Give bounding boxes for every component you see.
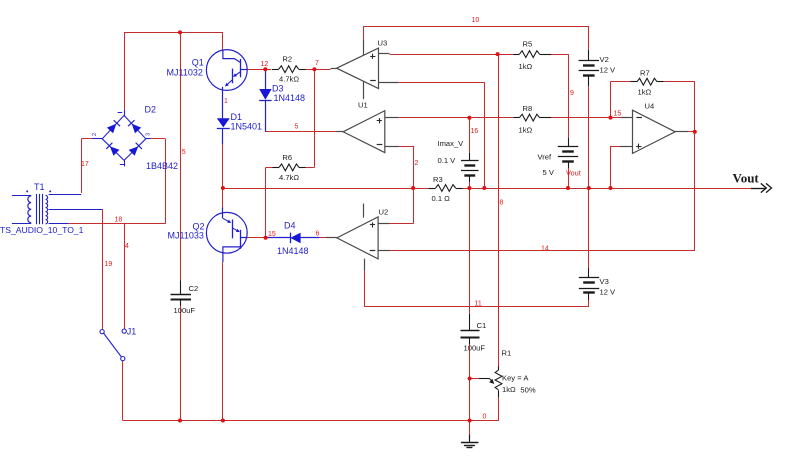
svg-text:Vout: Vout — [733, 171, 760, 186]
svg-text:50%: 50% — [520, 386, 535, 395]
svg-text:1kΩ: 1kΩ — [502, 385, 516, 394]
svg-text:J1: J1 — [127, 327, 137, 337]
svg-text:12 V: 12 V — [600, 66, 617, 75]
svg-text:5 V: 5 V — [543, 168, 555, 177]
svg-text:R3: R3 — [433, 175, 443, 184]
svg-text:18: 18 — [115, 217, 123, 224]
svg-text:100uF: 100uF — [464, 344, 486, 353]
svg-text:1N5401: 1N5401 — [231, 122, 263, 132]
svg-text:16: 16 — [471, 128, 479, 135]
svg-text:2: 2 — [415, 160, 419, 167]
svg-text:U3: U3 — [378, 39, 388, 48]
svg-text:12 V: 12 V — [600, 288, 617, 297]
svg-text:R7: R7 — [640, 69, 650, 78]
svg-text:MJ11032: MJ11032 — [167, 68, 203, 78]
svg-text:4.7kΩ: 4.7kΩ — [279, 74, 299, 83]
svg-text:D4: D4 — [284, 221, 296, 231]
svg-text:TS_AUDIO_10_TO_1: TS_AUDIO_10_TO_1 — [0, 225, 84, 235]
svg-text:4: 4 — [125, 243, 129, 250]
svg-text:Key = A: Key = A — [502, 374, 529, 383]
svg-text:D1: D1 — [231, 112, 243, 122]
svg-text:3: 3 — [146, 133, 152, 136]
svg-text:R8: R8 — [523, 104, 533, 113]
svg-text:T1: T1 — [34, 182, 45, 192]
svg-text:1: 1 — [224, 98, 228, 105]
svg-text:5: 5 — [295, 124, 299, 131]
svg-text:11: 11 — [475, 301, 482, 308]
svg-text:15: 15 — [268, 231, 276, 238]
svg-text:MJ11033: MJ11033 — [168, 231, 204, 241]
svg-text:19: 19 — [105, 261, 113, 268]
svg-text:8: 8 — [500, 200, 504, 207]
svg-text:1kΩ: 1kΩ — [638, 88, 652, 97]
svg-text:14: 14 — [541, 245, 549, 252]
svg-text:R1: R1 — [502, 349, 512, 358]
svg-text:U4: U4 — [645, 102, 655, 111]
svg-text:0: 0 — [483, 414, 487, 421]
svg-text:17: 17 — [81, 161, 89, 168]
svg-text:U2: U2 — [379, 208, 389, 217]
svg-text:5: 5 — [182, 149, 186, 156]
svg-text:7: 7 — [315, 60, 319, 67]
svg-text:1kΩ: 1kΩ — [519, 126, 533, 135]
svg-text:V2: V2 — [600, 55, 609, 64]
svg-text:V3: V3 — [600, 277, 609, 286]
svg-text:R6: R6 — [282, 153, 292, 162]
svg-text:Imax_V: Imax_V — [438, 139, 465, 148]
svg-text:U1: U1 — [358, 101, 368, 110]
svg-text:1N4148: 1N4148 — [274, 93, 306, 103]
svg-text:12: 12 — [261, 61, 269, 68]
svg-text:6: 6 — [316, 231, 320, 238]
svg-text:Q1: Q1 — [192, 57, 204, 67]
svg-text:Vout: Vout — [566, 169, 581, 178]
svg-text:D2: D2 — [145, 105, 157, 115]
svg-text:C1: C1 — [477, 321, 487, 330]
svg-text:0.1 V: 0.1 V — [438, 156, 457, 165]
svg-text:R5: R5 — [523, 40, 533, 49]
svg-text:4.7kΩ: 4.7kΩ — [279, 173, 299, 182]
svg-text:1B4B42: 1B4B42 — [146, 161, 178, 171]
svg-text:1kΩ: 1kΩ — [519, 62, 533, 71]
svg-text:100uF: 100uF — [174, 306, 196, 315]
svg-text:Vref: Vref — [538, 153, 553, 162]
svg-text:0.1 Ω: 0.1 Ω — [432, 194, 451, 203]
svg-text:1N4148: 1N4148 — [277, 246, 309, 256]
svg-text:2: 2 — [92, 133, 98, 136]
svg-text:C2: C2 — [189, 284, 199, 293]
svg-text:9: 9 — [570, 90, 574, 97]
svg-text:R2: R2 — [282, 54, 292, 63]
svg-text:10: 10 — [472, 17, 480, 24]
svg-text:15: 15 — [614, 110, 622, 117]
